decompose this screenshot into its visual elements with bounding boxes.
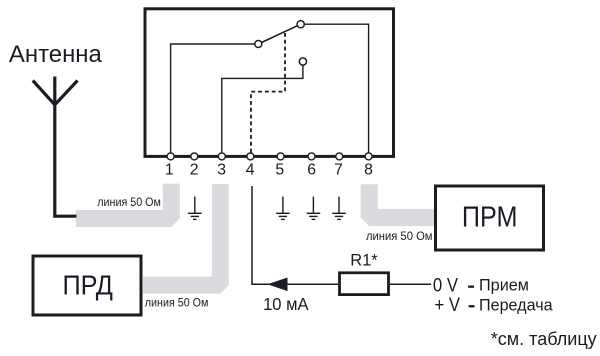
node: switch common contact — [255, 41, 262, 48]
svg-text:8: 8 — [364, 162, 373, 179]
ground symbol at pin 6 — [307, 197, 321, 220]
pin 3 — [218, 153, 225, 160]
svg-text:Передача: Передача — [479, 296, 553, 314]
svg-text:3: 3 — [217, 162, 226, 179]
ground symbol at pin 2 — [188, 197, 202, 220]
svg-text:R1*: R1* — [350, 252, 378, 270]
transmitter PRD box — [33, 256, 141, 315]
pin 7 — [336, 153, 343, 160]
wire: control line from pin 4 — [252, 186, 431, 284]
ground symbol at pin 5 — [276, 197, 290, 220]
svg-text:линия 50 Ом: линия 50 Ом — [145, 297, 209, 310]
wire: switch arm — [258, 24, 300, 44]
svg-text:*см. таблицу: *см. таблицу — [491, 328, 598, 349]
svg-text:0 V: 0 V — [433, 274, 458, 295]
svg-text:5: 5 — [275, 162, 284, 179]
receiver PRM box — [436, 186, 544, 250]
antenna E1 symbol — [33, 77, 78, 217]
ground symbol at pin 7 — [332, 197, 346, 220]
arrow: current direction — [268, 278, 288, 292]
svg-text:линия 50 Ом: линия 50 Ом — [366, 229, 433, 243]
svg-text:6: 6 — [307, 162, 316, 179]
svg-text:7: 7 — [334, 162, 343, 179]
pin 6 — [308, 153, 315, 160]
svg-text:+ V: + V — [435, 294, 461, 315]
relay box K1 — [145, 9, 394, 157]
wire: gray coax line pin 3 to PRD — [143, 184, 220, 285]
resistor R1 — [340, 273, 389, 295]
svg-text:2: 2 — [190, 162, 199, 179]
svg-text:1: 1 — [165, 162, 174, 179]
pin 1 — [167, 153, 174, 160]
wire: top contact to pin 8 — [302, 24, 369, 154]
pin 4 — [247, 153, 254, 160]
pin 5 — [277, 153, 284, 160]
wire: gray coax line pin 8 to PRM — [369, 184, 434, 217]
svg-text:ПРД: ПРД — [62, 269, 112, 300]
node: switch lower contact — [299, 58, 306, 65]
svg-text:Прием: Прием — [479, 275, 529, 294]
wire: dashed mechanical link to pin 4 — [251, 33, 285, 153]
pin 8 — [365, 153, 372, 160]
wire: pin 1 to switch common — [171, 44, 256, 154]
svg-text:линия 50 Ом: линия 50 Ом — [97, 197, 161, 210]
dash before Priem — [468, 286, 474, 288]
wire: second contact to pin 3 — [222, 63, 303, 154]
wire: gray coax line antenna to pin 1 — [76, 184, 171, 219]
svg-text:Антенна: Антенна — [9, 41, 102, 68]
dash before Peredacha — [469, 305, 475, 307]
svg-text:10 мА: 10 мА — [263, 293, 309, 314]
pin 2 — [191, 153, 198, 160]
svg-text:ПРМ: ПРМ — [462, 201, 518, 233]
svg-text:4: 4 — [246, 162, 255, 179]
node: switch upper contact — [297, 21, 304, 28]
